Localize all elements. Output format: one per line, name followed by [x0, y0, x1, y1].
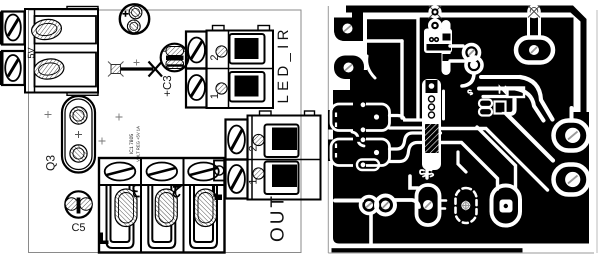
jumper wire W1: [108, 60, 162, 77]
IC U1 clearance column: [422, 79, 441, 170]
vertical channel below: [369, 214, 373, 245]
body: [207, 31, 274, 109]
white isolation channels and pads: [331, 18, 441, 171]
pads: [115, 189, 137, 227]
connector J3 (OUT terminal block, 3 pos): [99, 158, 225, 253]
channel into pad A from top: [570, 108, 574, 118]
J hook channel: [462, 73, 474, 86]
resistor pad column: [442, 20, 451, 75]
screw 1: [188, 38, 205, 63]
small pad ring below group B: [357, 160, 379, 171]
pin pads: [216, 46, 227, 57]
edge pad group B outline: [331, 139, 390, 166]
svg-text:OUT: OUT: [268, 196, 289, 242]
clearance notch: [333, 79, 343, 91]
edge pad group A outline: [331, 104, 390, 131]
trace channel from TL1 to ladder: [366, 18, 418, 42]
svg-text:5V: 5V: [26, 47, 36, 58]
svg-text:C5: C5: [71, 222, 85, 234]
channel along top of N pad: [483, 95, 507, 98]
capacitor C5: [65, 191, 92, 234]
wire cages: [107, 186, 218, 248]
svg-text:1: 1: [209, 93, 221, 99]
trace to bottom stadium: [458, 152, 466, 172]
vertical corner diag to pad B: [507, 99, 554, 161]
IC U1 body pads: [429, 96, 435, 118]
transistor Q3: [44, 96, 96, 173]
svg-text:VOLT REG +5V 1A: VOLT REG +5V 1A: [136, 126, 141, 162]
svg-text:+C3: +C3: [162, 75, 174, 96]
top pad X2 channels: [529, 6, 540, 17]
svg-text:1: 1: [248, 178, 260, 184]
cross in mounting oval: [461, 201, 471, 211]
copper pour: [333, 18, 589, 244]
trace channels from group A to IC: [390, 116, 422, 121]
pin numbers (rotated 180): [133, 185, 140, 196]
pad TL2 (merges with pour): [334, 56, 364, 80]
svg-text:IC1 7805: IC1 7805: [129, 134, 135, 155]
pad A ring: [554, 121, 589, 151]
pads cluster right of column: [464, 45, 480, 61]
vertical ladder channels: [402, 18, 418, 119]
svg-text:2: 2: [209, 54, 221, 60]
stadium ring pad R1: [417, 185, 440, 225]
stadium pad top right: [516, 38, 553, 63]
pad 2: [33, 57, 65, 81]
screw 1: [5, 15, 21, 41]
arcs down to pad A: [520, 77, 553, 120]
board outline frame bottom: [332, 248, 523, 252]
s-bend channel: [352, 132, 364, 146]
connector J1 (5V input terminal block): [0, 7, 98, 96]
IC right side channel: [442, 91, 445, 119]
regulator IC1 (7805) tiny text: [129, 126, 141, 162]
IC U1 pin pads (top): [426, 80, 438, 93]
screws: [105, 163, 136, 181]
channels near IC bottom: [410, 176, 418, 188]
pad TL1 (merges with frame bar): [334, 11, 363, 42]
pad 1: [30, 18, 62, 42]
channel pair to the right at y 77/88: [479, 77, 520, 89]
dashed mounting oval: [456, 188, 477, 223]
wire cages: [230, 34, 265, 64]
body: [248, 116, 321, 200]
board outline frame (thick): [346, 6, 587, 121]
capacitor C3: [161, 44, 189, 97]
stadium ring pad R2: [492, 186, 521, 226]
svg-text:Q3: Q3: [44, 155, 58, 171]
keying mark: [99, 233, 109, 245]
screw 2: [5, 55, 21, 81]
X marks on top pads: [429, 6, 541, 19]
drill holes (white circles with slash): [343, 5, 581, 212]
clearance around TL2 bottom merge: [367, 56, 375, 78]
body: [25, 9, 98, 93]
N pad outline: [508, 88, 525, 98]
black centres: [504, 204, 508, 208]
bottom left channel: [335, 199, 362, 203]
panel border lines: [327, 6, 329, 253]
edge pad bump B: [328, 140, 339, 162]
pad B ring: [554, 165, 589, 195]
trace channels from group B to IC: [390, 133, 441, 149]
board outline frame: [29, 10, 302, 253]
connector J4 (output terminal block, right edge): [214, 111, 321, 242]
svg-text:2: 2: [248, 145, 260, 151]
edge pad bump A: [328, 110, 339, 130]
small pad outlines: [479, 100, 492, 108]
screw 2: [188, 75, 205, 100]
via crosses: [45, 111, 123, 145]
small screw box above (on J3 corner): [214, 161, 225, 181]
IC U1 hatched pad block: [425, 124, 439, 153]
pads pair bottom left: [361, 197, 378, 214]
capacitor C4 (top centre): [120, 4, 149, 33]
etched text marks (drawn as strokes): [420, 38, 506, 177]
connector J2 (LED_IR terminal block): [186, 26, 292, 109]
traces to pads A and B: [441, 129, 548, 191]
